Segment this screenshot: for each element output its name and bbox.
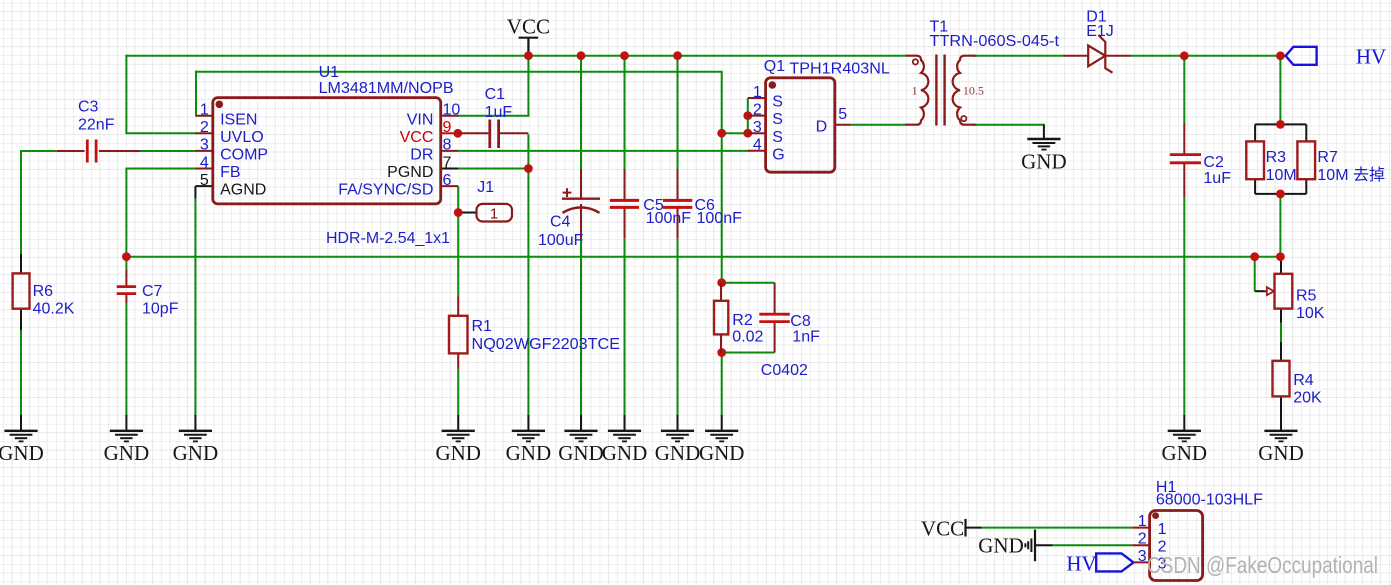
svg-text:10: 10	[443, 102, 461, 119]
svg-text:1uF: 1uF	[1203, 170, 1231, 187]
svg-text:20K: 20K	[1293, 390, 1322, 407]
svg-text:GND: GND	[1162, 441, 1208, 465]
svg-text:9: 9	[443, 119, 452, 136]
svg-text:GND: GND	[602, 441, 648, 465]
svg-text:10M: 10M	[1266, 167, 1297, 184]
svg-text:4: 4	[753, 137, 762, 154]
svg-text:TTRN-060S-045-t: TTRN-060S-045-t	[930, 33, 1060, 50]
svg-text:R6: R6	[33, 283, 54, 300]
svg-text:100uF: 100uF	[538, 232, 584, 249]
svg-text:PGND: PGND	[387, 164, 433, 181]
svg-text:S: S	[772, 94, 783, 111]
svg-text:FA/SYNC/SD: FA/SYNC/SD	[338, 182, 433, 199]
svg-text:1uF: 1uF	[485, 104, 513, 121]
svg-text:G: G	[772, 146, 784, 163]
svg-text:E1J: E1J	[1086, 23, 1114, 40]
svg-text:3: 3	[753, 119, 762, 136]
svg-text:S: S	[772, 129, 783, 146]
svg-text:GND: GND	[173, 441, 219, 465]
svg-text:UVLO: UVLO	[220, 129, 264, 146]
svg-text:GND: GND	[1021, 150, 1067, 174]
svg-text:AGND: AGND	[220, 182, 266, 199]
svg-text:10K: 10K	[1296, 305, 1325, 322]
svg-text:DR: DR	[410, 147, 433, 164]
svg-text:3: 3	[200, 137, 209, 154]
svg-text:COMP: COMP	[220, 147, 268, 164]
svg-text:C1: C1	[485, 86, 506, 103]
svg-text:8: 8	[443, 137, 452, 154]
svg-text:100nF: 100nF	[697, 210, 743, 227]
svg-text:1: 1	[912, 84, 918, 98]
svg-text:68000-103HLF: 68000-103HLF	[1156, 491, 1263, 508]
svg-text:VIN: VIN	[407, 111, 434, 128]
svg-text:6: 6	[443, 172, 452, 189]
svg-text:S: S	[772, 111, 783, 128]
svg-text:CSDN @FakeOccupational: CSDN @FakeOccupational	[1147, 552, 1378, 578]
svg-text:C0402: C0402	[761, 362, 808, 379]
svg-text:GND: GND	[978, 534, 1024, 558]
svg-text:1: 1	[200, 102, 209, 119]
svg-text:VCC: VCC	[400, 129, 434, 146]
svg-text:HV: HV	[1066, 552, 1096, 576]
svg-text:R1: R1	[472, 318, 493, 335]
svg-text:GND: GND	[506, 441, 552, 465]
svg-text:GND: GND	[558, 441, 604, 465]
svg-text:C3: C3	[78, 99, 99, 116]
svg-text:1: 1	[1158, 521, 1167, 538]
svg-text:100nF: 100nF	[646, 210, 692, 227]
svg-text:TPH1R403NL: TPH1R403NL	[789, 60, 890, 77]
svg-text:3: 3	[1138, 548, 1147, 565]
svg-text:HV: HV	[1356, 45, 1386, 69]
svg-text:2: 2	[753, 101, 762, 118]
svg-text:1: 1	[1138, 513, 1147, 530]
svg-text:VCC: VCC	[507, 15, 550, 39]
svg-text:GND: GND	[655, 441, 701, 465]
svg-text:Q1: Q1	[764, 58, 785, 75]
svg-text:C2: C2	[1203, 154, 1224, 171]
svg-text:GND: GND	[435, 441, 481, 465]
svg-text:R7: R7	[1317, 149, 1338, 166]
svg-text:GND: GND	[699, 441, 745, 465]
svg-text:5: 5	[838, 106, 847, 123]
svg-text:R4: R4	[1293, 372, 1314, 389]
svg-text:22nF: 22nF	[78, 117, 115, 134]
svg-text:5: 5	[200, 172, 209, 189]
svg-text:HDR-M-2.54_1x1: HDR-M-2.54_1x1	[326, 230, 450, 247]
svg-text:10.5: 10.5	[963, 84, 984, 98]
svg-text:10M 去掉: 10M 去掉	[1317, 166, 1385, 184]
svg-text:VCC: VCC	[921, 517, 964, 541]
svg-text:2: 2	[1138, 531, 1147, 548]
svg-text:C4: C4	[550, 214, 571, 231]
svg-text:U1: U1	[319, 64, 340, 81]
svg-text:40.2K: 40.2K	[33, 301, 75, 318]
svg-text:LM3481MM/NOPB: LM3481MM/NOPB	[319, 80, 454, 97]
svg-text:R5: R5	[1296, 288, 1317, 305]
svg-text:0.02: 0.02	[732, 329, 763, 346]
svg-text:GND: GND	[1258, 441, 1304, 465]
svg-text:1nF: 1nF	[792, 329, 820, 346]
svg-text:GND: GND	[0, 441, 44, 465]
svg-text:R2: R2	[732, 312, 753, 329]
svg-text:ISEN: ISEN	[220, 111, 257, 128]
svg-text:GND: GND	[104, 441, 150, 465]
svg-text:J1: J1	[477, 179, 494, 196]
svg-text:C7: C7	[142, 283, 163, 300]
svg-text:2: 2	[200, 119, 209, 136]
svg-text:R3: R3	[1266, 149, 1287, 166]
svg-text:FB: FB	[220, 164, 240, 181]
svg-text:7: 7	[443, 154, 452, 171]
svg-text:D: D	[816, 119, 828, 136]
svg-text:NQ02WGF2203TCE: NQ02WGF2203TCE	[472, 336, 621, 353]
svg-text:1: 1	[490, 205, 498, 222]
svg-text:1: 1	[753, 84, 762, 101]
svg-text:10pF: 10pF	[142, 301, 179, 318]
svg-text:C8: C8	[790, 313, 811, 330]
svg-text:4: 4	[200, 154, 209, 171]
